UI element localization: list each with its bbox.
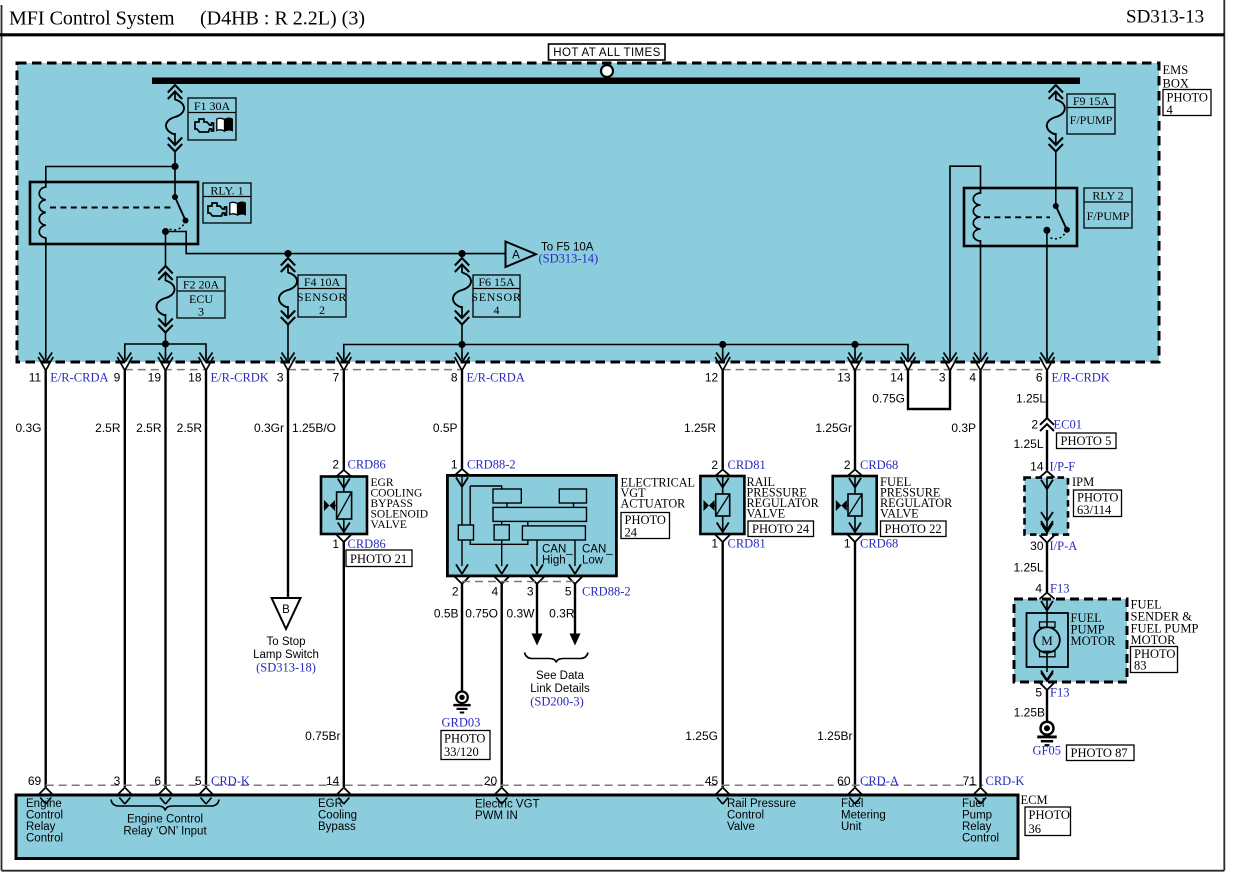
EGR valve name (371, 477, 429, 531)
svg-text:2: 2 (844, 458, 851, 472)
fuel valve solenoid element (836, 494, 862, 516)
svg-text:(D4HB : R 2.2L) (3): (D4HB : R 2.2L) (3) (200, 8, 365, 30)
svg-text:Control: Control (26, 810, 63, 822)
PHOTO 83 box (1131, 647, 1178, 673)
svg-text:0.3Gr: 0.3Gr (254, 421, 284, 435)
wire 1.25Br fuel valve to ECM60 (854, 542, 856, 787)
RLY2 coil-contact dashed link (984, 216, 1050, 218)
svg-text:3: 3 (114, 774, 121, 788)
svg-text:3: 3 (277, 371, 284, 385)
svg-text:12: 12 (705, 371, 719, 385)
fuel sender & fuel pump motor box (1014, 599, 1127, 682)
svg-text:5: 5 (1035, 686, 1042, 700)
EMS box (fuse/relay box) (17, 63, 1159, 362)
svg-text:1: 1 (844, 537, 851, 551)
wire 1.25Gr pin13 to fuel valve (854, 371, 856, 471)
PHOTO 36 box (1025, 807, 1071, 836)
svg-text:PHOTO 5: PHOTO 5 (1061, 434, 1112, 448)
ECM pin 5 connector (199, 788, 214, 805)
svg-text:E/R-CRDA: E/R-CRDA (467, 371, 525, 385)
svg-text:SENSOR: SENSOR (297, 290, 347, 304)
svg-text:Cooling: Cooling (318, 810, 357, 822)
svg-text:1.25L: 1.25L (1013, 437, 1043, 451)
RLY 2 label box (1084, 188, 1132, 228)
wire F1 node down to RLY1 switch (174, 167, 176, 198)
IPM top connector pin 14 I/P-F (1040, 471, 1055, 489)
svg-text:RLY. 1: RLY. 1 (210, 184, 243, 198)
wire 0.75Br EGR to ECM14 (343, 542, 345, 787)
VGT bottom connector pin 3 (530, 564, 545, 584)
junction node rail/pin13 (851, 341, 858, 348)
wire RLY2 coil feed loop (950, 166, 981, 352)
fuel valve top connector pin 2 CRD68 (848, 470, 863, 488)
wire 1.25B to GF05 (1046, 690, 1048, 722)
svg-text:36: 36 (1029, 822, 1042, 836)
svg-text:18: 18 (188, 371, 202, 385)
svg-text:2: 2 (1031, 418, 1038, 432)
junction node F6/feed rail (458, 341, 465, 348)
svg-text:0.75Br: 0.75Br (305, 729, 340, 743)
svg-text:PHOTO 22: PHOTO 22 (885, 522, 942, 536)
svg-text:1.25L: 1.25L (1013, 561, 1043, 575)
fuel valve name (880, 475, 953, 521)
svg-text:33/120: 33/120 (444, 745, 479, 759)
wire 0.75O VGT4 to ECM20 (501, 584, 503, 787)
IPM box (1025, 478, 1069, 535)
PHOTO 63/114 box (1074, 490, 1122, 517)
junction node rail/pin12 (719, 341, 726, 348)
IPM bottom double chevron (1041, 512, 1053, 530)
F9 15A F/PUMP label box (1067, 94, 1115, 134)
EMS pin 12 connector (715, 352, 730, 371)
ECM pin 69 connector (38, 788, 53, 805)
svg-text:3: 3 (939, 371, 946, 385)
ECM pin 20 connector (494, 788, 509, 805)
svg-text:EC01: EC01 (1054, 418, 1082, 432)
svg-text:MOTOR: MOTOR (1131, 633, 1177, 647)
PHOTO 22 box (881, 521, 947, 537)
ECM label Rail Pressure Control Valve (727, 798, 796, 833)
svg-text:1.25Gr: 1.25Gr (815, 421, 852, 435)
wire 0.3W CAN High (536, 584, 538, 634)
VGT bottom connector pin 2 (455, 564, 470, 584)
wire 2.5R pin18 to ECM5 (205, 371, 207, 788)
svg-text:20: 20 (484, 774, 498, 788)
F1 30A label box (188, 98, 236, 140)
ECM label Engine Control Relay ON Input (123, 814, 207, 838)
svg-text:1: 1 (451, 458, 458, 472)
fuse F1 30A (166, 85, 184, 152)
svg-text:63/114: 63/114 (1077, 503, 1112, 517)
svg-text:0.5P: 0.5P (433, 421, 458, 435)
svg-text:Control: Control (26, 833, 63, 845)
EMS pin 19 connector (158, 352, 173, 371)
svg-text:High: High (542, 555, 566, 567)
svg-text:VALVE: VALVE (880, 507, 919, 521)
svg-text:0.5B: 0.5B (434, 607, 459, 621)
ECM label Fuel Metering Unit (841, 798, 886, 833)
svg-text:F1 30A: F1 30A (194, 99, 231, 113)
junction node rail/F4 (284, 250, 291, 257)
svg-text:3: 3 (527, 585, 534, 599)
title separator line (0, 33, 1224, 36)
svg-text:CRD81: CRD81 (728, 458, 766, 472)
svg-text:See Data: See Data (536, 670, 585, 682)
svg-text:2.5R: 2.5R (95, 421, 121, 435)
svg-text:7: 7 (333, 371, 340, 385)
svg-text:19: 19 (148, 371, 162, 385)
RLY1 coil (39, 182, 46, 244)
F6 15A SENSOR 4 label box (471, 275, 521, 317)
rail valve name (747, 475, 820, 521)
svg-text:F6 15A: F6 15A (478, 275, 515, 289)
VGT bottom connector pin 5 (568, 564, 583, 584)
svg-text:MFI Control System: MFI Control System (9, 8, 175, 30)
svg-text:8: 8 (451, 371, 458, 385)
svg-text:F2 20A: F2 20A (183, 278, 220, 292)
CAN Low arrowhead (570, 634, 581, 646)
svg-text:(SD313-14): (SD313-14) (539, 252, 599, 266)
svg-text:PHOTO: PHOTO (444, 732, 485, 746)
RLY1 switch (162, 194, 189, 235)
svg-text:Link Details: Link Details (530, 683, 590, 695)
wire 0.5P pin8 to VGT actuator (461, 371, 463, 471)
VGT actuator name (621, 476, 695, 511)
EGR solenoid element (324, 492, 352, 519)
connector separation dashed lines (EMS bottom) (125, 369, 1047, 371)
fuel valve bottom connector pin 1 CRD68 (848, 523, 863, 543)
svg-text:1.25B/O: 1.25B/O (292, 421, 336, 435)
wire 1.25L IPM to F13 (1046, 543, 1048, 594)
EMS pin 14 connector (901, 352, 916, 371)
svg-text:83: 83 (1134, 659, 1147, 673)
svg-text:2: 2 (319, 303, 325, 317)
svg-text:BOX: BOX (1163, 77, 1189, 91)
PHOTO 87 box (1067, 745, 1135, 761)
svg-text:I/P-A: I/P-A (1050, 539, 1078, 553)
fuel pump top connector pin 4 F13 (1040, 593, 1055, 611)
svg-text:Valve: Valve (727, 821, 755, 833)
svg-text:4: 4 (1035, 582, 1042, 596)
PHOTO 4 box (1163, 90, 1211, 118)
wire 0.3R CAN Low (574, 584, 576, 634)
svg-text:PHOTO 24: PHOTO 24 (752, 522, 810, 536)
svg-text:GF05: GF05 (1033, 744, 1061, 758)
svg-text:30: 30 (1030, 539, 1044, 553)
svg-text:EGR: EGR (318, 798, 343, 810)
svg-text:MOTOR: MOTOR (1071, 634, 1117, 648)
svg-text:CRD81: CRD81 (728, 537, 766, 551)
wire 2.5R pin19 to ECM6 (164, 371, 166, 788)
power bus bar (152, 78, 1080, 85)
fuel pump bottom connector pin 5 F13 (1040, 671, 1055, 691)
junction node F2/rail (162, 340, 169, 347)
ground GRD03 (453, 692, 470, 713)
ECM connector dashed line (46, 784, 983, 786)
svg-text:E/R-CRDA: E/R-CRDA (50, 371, 108, 385)
svg-text:M: M (1041, 633, 1053, 648)
svg-text:F/PUMP: F/PUMP (1070, 113, 1113, 127)
PHOTO 24 box (rail valve) (748, 521, 814, 537)
svg-text:F4 10A: F4 10A (304, 275, 341, 289)
FUEL PUMP MOTOR name (1071, 611, 1117, 648)
svg-text:CRD88-2: CRD88-2 (582, 585, 631, 599)
relay RLY 2 box (964, 188, 1077, 246)
svg-text:Lamp Switch: Lamp Switch (253, 649, 319, 661)
svg-text:Relay: Relay (26, 821, 56, 833)
PHOTO 21 box (346, 550, 412, 567)
svg-text:0.75O: 0.75O (465, 607, 498, 621)
svg-text:4: 4 (494, 303, 500, 317)
svg-text:E/R-CRDK: E/R-CRDK (1052, 371, 1110, 385)
ECM pin 6 connector (158, 788, 173, 805)
svg-text:CRD86: CRD86 (348, 458, 386, 472)
fuel pump motor inner housing (1027, 613, 1069, 667)
svg-text:60: 60 (837, 774, 851, 788)
svg-text:(SD313-18): (SD313-18) (256, 661, 316, 675)
svg-text:3: 3 (198, 305, 204, 319)
EMS pin 3 connector (943, 352, 958, 371)
svg-text:11: 11 (29, 371, 42, 385)
svg-text:CRD68: CRD68 (860, 458, 898, 472)
svg-text:5: 5 (195, 774, 202, 788)
svg-text:9: 9 (114, 371, 121, 385)
rail pressure regulator valve box (700, 476, 744, 534)
wire RLY2 output to pin 6 (1046, 230, 1048, 352)
VGT bottom connector pin 4 (494, 564, 509, 584)
fuse F6 15A (453, 258, 471, 325)
F4 10A SENSOR 2 label box (297, 275, 347, 317)
To Stop Lamp Switch note (253, 636, 319, 675)
fuse F2 20A (157, 266, 175, 333)
ECM pin 3 connector (117, 788, 132, 805)
svg-text:2: 2 (711, 458, 718, 472)
svg-text:PHOTO 87: PHOTO 87 (1071, 746, 1128, 760)
svg-text:Relay: Relay (962, 821, 992, 833)
ECM label Electric VGT PWM IN (475, 799, 540, 823)
wire 1.25L EC01 to IPM (1046, 430, 1048, 471)
RLY.1 label box (203, 183, 251, 223)
svg-text:VALVE: VALVE (371, 519, 407, 531)
svg-text:RLY 2: RLY 2 (1092, 189, 1123, 203)
wire RLY2 coil to pin 4 (980, 246, 982, 352)
svg-text:F9 15A: F9 15A (1073, 94, 1110, 108)
svg-text:0.3W: 0.3W (506, 607, 535, 621)
motor M (1034, 599, 1060, 672)
fuse F4 10A (279, 258, 297, 325)
svg-text:6: 6 (1036, 371, 1043, 385)
svg-text:1.25L: 1.25L (1016, 392, 1046, 406)
svg-text:45: 45 (705, 774, 719, 788)
EMS pin 9 connector (117, 352, 132, 371)
rail valve top connector pin 2 CRD81 (715, 470, 730, 488)
wire RLY1 output down to fuse F2 (165, 232, 167, 267)
svg-text:Metering: Metering (841, 810, 886, 822)
svg-text:E/R-CRDK: E/R-CRDK (211, 371, 269, 385)
svg-text:0.3P: 0.3P (951, 421, 976, 435)
svg-text:IPM: IPM (1072, 475, 1094, 489)
ECM label Fuel Pump Relay Control (962, 798, 999, 845)
svg-text:CRD68: CRD68 (860, 537, 898, 551)
ECM pin 71 connector (973, 788, 988, 805)
svg-text:Electric VGT: Electric VGT (475, 799, 540, 811)
svg-text:1.25B: 1.25B (1014, 706, 1045, 720)
svg-text:Control: Control (727, 810, 764, 822)
wire 2.5R pin9 to ECM3 (124, 371, 126, 788)
electrical VGT actuator box (447, 475, 616, 576)
sensor feed rail to pins 7..14 (344, 345, 908, 353)
svg-text:2.5R: 2.5R (177, 421, 203, 435)
svg-text:F13: F13 (1050, 686, 1069, 700)
svg-text:ECM: ECM (1021, 793, 1048, 807)
svg-text:2: 2 (332, 458, 339, 472)
fuel pressure regulator valve box (833, 476, 877, 534)
off-page connector B (272, 598, 301, 629)
svg-text:(SD200-3): (SD200-3) (530, 695, 583, 709)
svg-text:1.25Br: 1.25Br (817, 729, 852, 743)
EMS pin 3 connector (281, 352, 296, 371)
PHOTO 5 box (1057, 433, 1117, 449)
svg-text:Bypass: Bypass (318, 821, 356, 833)
svg-text:B: B (282, 604, 290, 616)
EMS BOX name (1163, 63, 1189, 91)
svg-text:0.75G: 0.75G (872, 392, 905, 406)
HOT AT ALL TIMES label (549, 44, 666, 60)
svg-text:I/P-F: I/P-F (1050, 460, 1076, 474)
wire 1.25R pin12 to rail valve (722, 371, 724, 471)
wire 0.3G pin11 to ECM69 (45, 371, 47, 788)
EMS pin 4 connector (973, 352, 988, 371)
jumper 0.75G pins 14-3 (908, 371, 950, 410)
svg-text:0.3R: 0.3R (549, 607, 575, 621)
wire 0.3Gr pin3 to connector B (287, 371, 289, 599)
svg-text:PHOTO 21: PHOTO 21 (350, 552, 407, 566)
svg-text:CRD86: CRD86 (348, 537, 386, 551)
svg-text:Relay ‘ON’ Input: Relay ‘ON’ Input (123, 826, 207, 838)
ECM label EGR Cooling Bypass (318, 798, 357, 833)
svg-text:1: 1 (711, 537, 718, 551)
svg-text:Rail Pressure: Rail Pressure (727, 798, 796, 810)
svg-text:14: 14 (890, 371, 904, 385)
EGR valve top connector pin 2 CRD86 (336, 470, 351, 488)
svg-text:24: 24 (625, 526, 638, 540)
svg-text:4: 4 (969, 371, 976, 385)
svg-text:14: 14 (326, 774, 340, 788)
ECM box (16, 795, 1018, 859)
ECM pin 45 connector (715, 788, 730, 805)
svg-text:GRD03: GRD03 (442, 716, 481, 730)
CAN High arrowhead (532, 634, 543, 646)
wire RLY1 coil to pin 11 (45, 244, 47, 352)
wire 0.5B VGT2 to GRD03 (461, 584, 463, 691)
VGT bottom connector dashed line (462, 581, 575, 583)
svg-text:13: 13 (837, 371, 851, 385)
fuse F9 15A (1047, 85, 1065, 152)
svg-text:Engine Control: Engine Control (127, 814, 203, 826)
svg-text:Unit: Unit (841, 821, 862, 833)
svg-text:1.25G: 1.25G (685, 729, 718, 743)
svg-text:CRD-K: CRD-K (986, 774, 1025, 788)
wire RLY1 output to sensor-fuse rail (166, 232, 506, 254)
EGR cooling bypass solenoid valve box (321, 477, 367, 535)
data link brace (525, 653, 589, 663)
ECM pin 60 connector (848, 788, 863, 805)
svg-text:14: 14 (1030, 460, 1044, 474)
inline connector EC01 (1040, 418, 1054, 431)
svg-text:A: A (512, 250, 520, 262)
F2 20A ECU 3 label box (177, 277, 225, 319)
VGT internal circuit (458, 475, 586, 566)
RLY2 switch (1043, 203, 1070, 239)
fuel pump bottom arrow (1041, 673, 1053, 682)
FUEL SENDER & FUEL PUMP MOTOR name (1131, 598, 1199, 648)
PHOTO 33/120 box (441, 731, 490, 760)
ground GF05 (1037, 722, 1056, 746)
off-page connector A (506, 242, 537, 268)
EMS pin 13 connector (848, 352, 863, 371)
ECM pin 14 connector (336, 788, 351, 805)
svg-text:PWM IN: PWM IN (475, 810, 518, 822)
PHOTO 24 box (VGT) (621, 513, 670, 540)
EMS pin 11 connector (38, 352, 53, 371)
ECM label Engine Control Relay Control (26, 798, 63, 845)
EMS pin 7 connector (336, 352, 351, 371)
svg-text:4: 4 (1167, 103, 1174, 117)
VGT top connector pin 1 CRD88-2 (455, 469, 470, 487)
svg-text:Engine: Engine (26, 798, 62, 810)
See Data Link Details note (530, 670, 590, 709)
svg-text:0.3G: 0.3G (15, 421, 41, 435)
svg-text:SD313-13: SD313-13 (1126, 7, 1204, 28)
RLY1 coil-contact dashed link (50, 207, 172, 209)
svg-text:Fuel: Fuel (962, 798, 984, 810)
svg-text:1.25R: 1.25R (684, 421, 716, 435)
svg-text:6: 6 (154, 774, 161, 788)
svg-text:CRD88-2: CRD88-2 (467, 458, 516, 472)
svg-text:SENSOR: SENSOR (471, 290, 521, 304)
svg-text:To Stop: To Stop (267, 636, 306, 648)
relay RLY.1 box (30, 182, 198, 244)
svg-text:HOT AT ALL TIMES: HOT AT ALL TIMES (553, 47, 660, 59)
svg-text:PHOTO: PHOTO (1029, 808, 1070, 822)
svg-text:ACTUATOR: ACTUATOR (621, 497, 687, 511)
svg-text:VALVE: VALVE (747, 507, 786, 521)
svg-text:Fuel: Fuel (841, 798, 863, 810)
svg-text:4: 4 (492, 585, 499, 599)
svg-text:Pump: Pump (962, 810, 992, 822)
ECU branch rail to pins 9/19/18 (125, 344, 206, 352)
IPM bottom connector pin 30 I/P-A (1040, 523, 1055, 543)
svg-text:Low: Low (582, 555, 604, 567)
svg-text:5: 5 (565, 585, 572, 599)
rail valve solenoid element (704, 494, 730, 516)
wire 1.25L pin6 to EC01 (1046, 371, 1048, 419)
brace pins 3/6/5 (111, 800, 219, 811)
junction node rail/F6 (458, 250, 465, 257)
EMS pin 18 connector (199, 352, 214, 371)
svg-text:71: 71 (963, 774, 977, 788)
junction node at F1 output (171, 163, 178, 170)
RLY2 coil (973, 188, 980, 246)
bus bar node circle (601, 65, 613, 77)
wire 0.3P pin4 to ECM71 (979, 371, 981, 788)
EGR valve bottom connector pin 1 CRD86 (336, 523, 351, 543)
svg-text:2: 2 (452, 585, 459, 599)
wire 1.25G rail valve to ECM45 (722, 542, 724, 787)
svg-text:69: 69 (28, 774, 42, 788)
svg-text:2.5R: 2.5R (136, 421, 162, 435)
svg-text:EMS: EMS (1163, 63, 1189, 77)
